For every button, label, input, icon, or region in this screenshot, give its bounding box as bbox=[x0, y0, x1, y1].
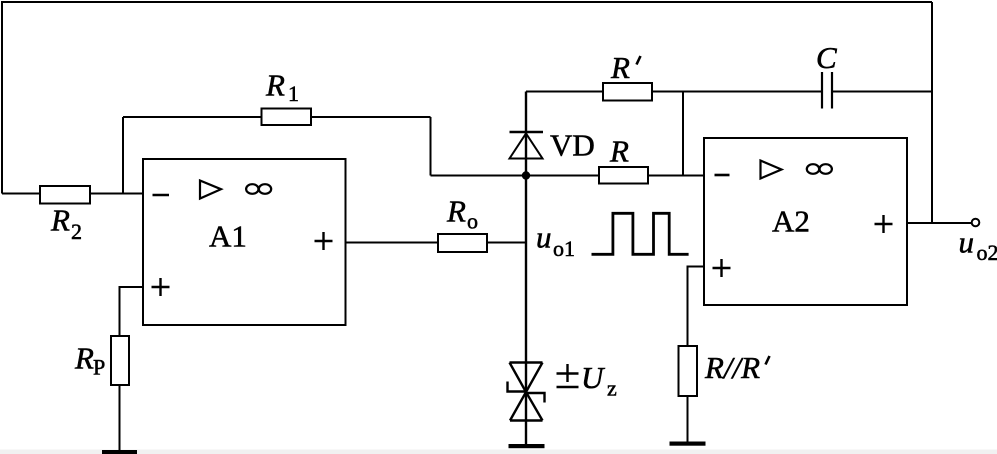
wire A2 plus input bbox=[688, 267, 705, 347]
bottom scan edge band bbox=[0, 450, 997, 454]
resistor Ro bbox=[438, 234, 487, 252]
wire vertical R'/R join bbox=[682, 92, 684, 176]
resistor R2 bbox=[40, 186, 90, 204]
resistor R//R' bbox=[679, 346, 698, 396]
svg-text:R: R bbox=[74, 341, 94, 376]
wire R1 right vertical bbox=[430, 117, 432, 176]
svg-text:o1: o1 bbox=[553, 236, 575, 261]
svg-text:R: R bbox=[610, 50, 630, 85]
op-amp A2 plus output bbox=[875, 215, 893, 233]
square wave symbol bbox=[592, 213, 689, 254]
ground for zener bbox=[509, 444, 545, 448]
resistor RP bbox=[111, 336, 129, 385]
wire R1 horizontal bbox=[123, 116, 431, 118]
op-amp A1 box bbox=[143, 159, 346, 325]
resistor R bbox=[599, 167, 648, 184]
op-amp A2 infinity bbox=[807, 164, 819, 174]
wire R//R' to ground bbox=[687, 396, 689, 442]
op-amp A1 minus input bbox=[153, 194, 170, 197]
op-amp A2 plus input bbox=[713, 259, 731, 277]
svg-text:z: z bbox=[607, 376, 617, 401]
capacitor C bbox=[821, 72, 823, 109]
wire A1 output through Ro bbox=[346, 242, 527, 244]
op-amp A2 box bbox=[704, 138, 907, 305]
svg-text:u: u bbox=[536, 220, 552, 255]
svg-text:o: o bbox=[467, 209, 478, 234]
label ±Uz bbox=[557, 364, 579, 387]
diode VD bbox=[510, 131, 544, 134]
svg-text:u: u bbox=[959, 225, 975, 260]
ground for RP bbox=[102, 450, 137, 454]
terminal uo2 bbox=[972, 219, 980, 227]
zener bars bbox=[508, 382, 545, 403]
zener diode ±Uz top triangle bbox=[510, 363, 543, 393]
wire A2 output bbox=[907, 222, 972, 224]
resistor R1 bbox=[262, 109, 312, 126]
svg-text:A1: A1 bbox=[209, 219, 247, 254]
svg-text:A2: A2 bbox=[772, 204, 810, 239]
svg-text:o2: o2 bbox=[977, 240, 997, 265]
wire top feedback from uo2 to left side bbox=[2, 2, 932, 194]
svg-text:C: C bbox=[816, 40, 837, 75]
ground for R//R' bbox=[670, 442, 706, 446]
wire main vertical through VD, uo1, zener bbox=[525, 92, 527, 445]
svg-text:U: U bbox=[581, 360, 606, 395]
node junction dot bbox=[522, 171, 530, 179]
wire R branch horizontal bbox=[526, 175, 704, 177]
svg-text:R: R bbox=[446, 194, 466, 229]
svg-text:R: R bbox=[50, 203, 70, 238]
op-amp A1 plus output bbox=[315, 232, 333, 250]
svg-text:2: 2 bbox=[71, 219, 82, 244]
svg-text:1: 1 bbox=[288, 81, 299, 106]
svg-text:VD: VD bbox=[550, 128, 595, 163]
wire A1 inverting input horizontal bbox=[2, 193, 143, 195]
svg-text:R: R bbox=[265, 68, 285, 103]
wire right vertical feedback bbox=[931, 2, 933, 223]
wire R1 to node uo1 bbox=[431, 175, 527, 177]
op-amp A2 minus input bbox=[715, 174, 730, 177]
zener diode ±Uz bottom triangle bbox=[510, 392, 543, 421]
svg-text:R//R: R//R bbox=[704, 350, 760, 385]
wire RP to ground bbox=[119, 385, 121, 451]
op-amp A1 triangle bbox=[200, 181, 221, 199]
op-amp A1 plus input bbox=[152, 278, 170, 296]
svg-text:R: R bbox=[609, 134, 629, 169]
wire R1 left vertical bbox=[122, 117, 124, 194]
wire R' branch horizontal bbox=[526, 91, 822, 93]
op-amp A1 infinity bbox=[246, 184, 258, 194]
svg-text:P: P bbox=[93, 355, 105, 380]
wire A1 plus input bbox=[120, 287, 144, 336]
resistor R' bbox=[603, 83, 652, 101]
op-amp A2 triangle bbox=[761, 161, 782, 179]
